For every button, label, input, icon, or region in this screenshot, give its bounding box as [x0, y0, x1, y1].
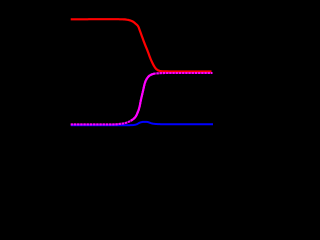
red curve (upper state population, solid) [71, 19, 212, 71]
population dynamics plot, black background [0, 0, 237, 166]
blue curve (lowest population, solid) [71, 122, 213, 125]
magenta steep segment (appears solid) [131, 74, 154, 121]
magenta curve (rising state population, dotted, on top) [71, 73, 213, 124]
magenta under-stroke (faint solid base of dotted line) [71, 73, 213, 124]
